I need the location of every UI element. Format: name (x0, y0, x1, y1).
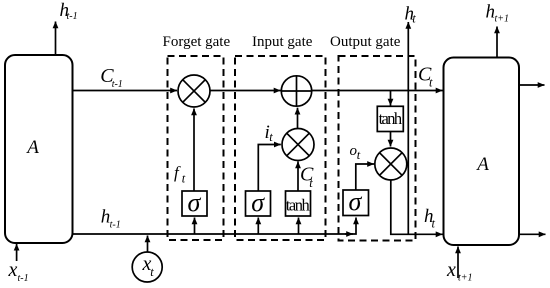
svg-text:x: x (446, 259, 456, 281)
svg-text:t: t (269, 130, 273, 144)
svg-text:t: t (182, 171, 186, 185)
svg-text:tanh: tanh (286, 196, 311, 215)
svg-text:σ: σ (251, 188, 265, 217)
svg-text:t: t (412, 12, 416, 26)
svg-text:tanh: tanh (379, 109, 403, 128)
svg-text:t: t (357, 148, 361, 162)
svg-text:Output gate: Output gate (330, 34, 401, 50)
svg-text:t-1: t-1 (18, 273, 29, 284)
svg-text:t-1: t-1 (110, 220, 121, 231)
svg-text:t: t (309, 176, 313, 190)
svg-text:A: A (475, 154, 489, 175)
svg-text:t+1: t+1 (495, 14, 510, 25)
svg-text:t-1: t-1 (67, 11, 78, 22)
svg-text:Forget gate: Forget gate (163, 34, 231, 50)
svg-text:x: x (8, 259, 18, 281)
svg-text:Input gate: Input gate (252, 34, 313, 50)
svg-text:σ: σ (349, 187, 363, 216)
svg-text:f: f (174, 163, 181, 182)
svg-text:t+1: t+1 (458, 273, 473, 284)
svg-text:σ: σ (188, 188, 202, 217)
svg-text:t: t (429, 75, 433, 89)
svg-text:t: t (432, 217, 436, 231)
svg-text:t: t (150, 265, 154, 279)
svg-text:t-1: t-1 (112, 79, 123, 90)
svg-text:A: A (25, 137, 39, 158)
